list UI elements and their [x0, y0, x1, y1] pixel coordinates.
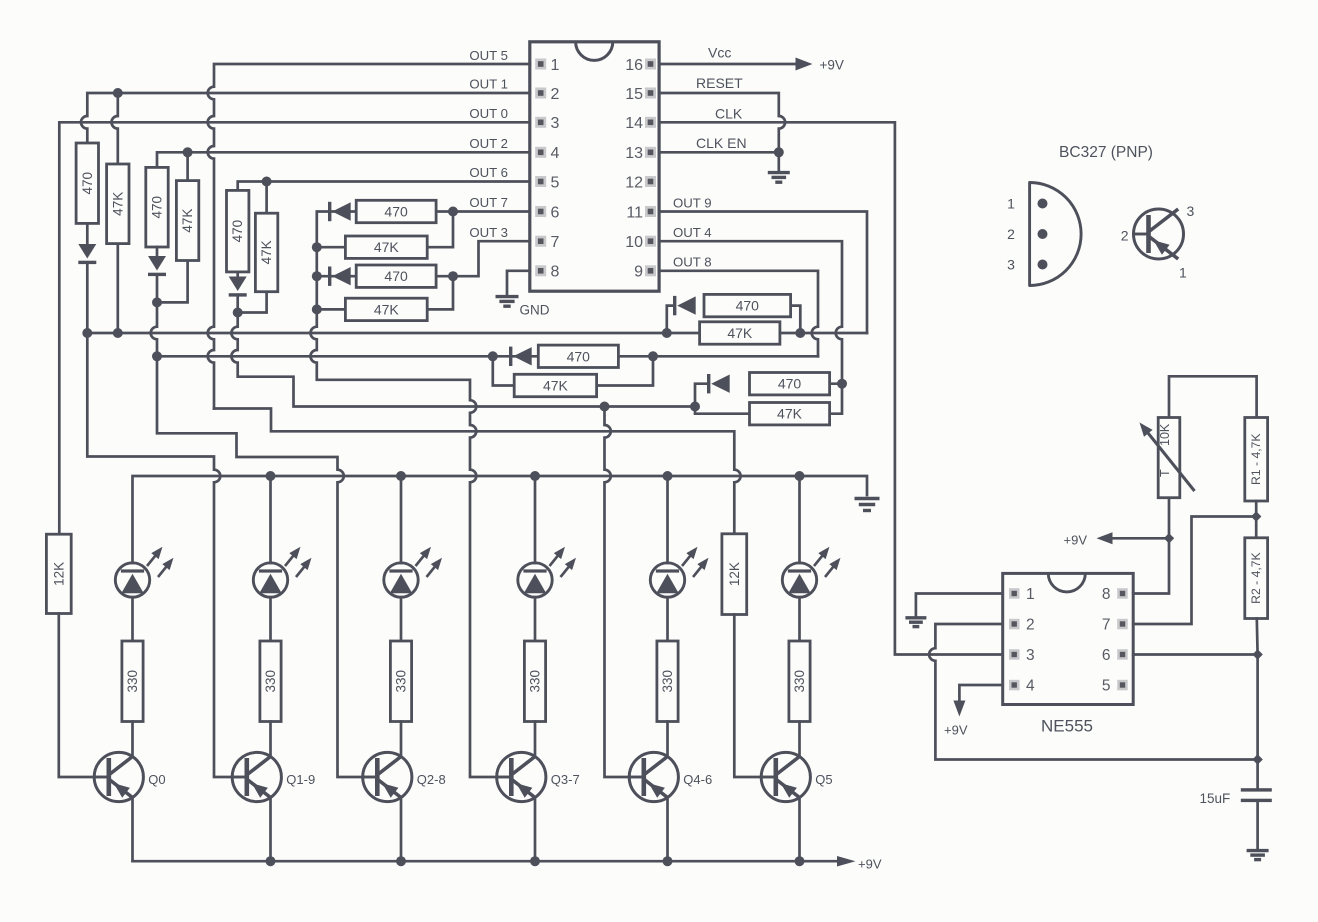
wire Vcc pin16 — [659, 63, 796, 66]
diode OUT2 series — [148, 256, 166, 271]
node P4 right junction — [648, 351, 658, 361]
svg-text:16: 16 — [625, 57, 643, 74]
wire OUT9 pin11 to row1 right end — [659, 212, 867, 334]
svg-text:CLK: CLK — [715, 105, 743, 121]
node rail/LED column 3 — [530, 471, 540, 481]
resistor P4 470 — [538, 345, 618, 367]
diode OUT1 series — [78, 244, 96, 259]
resistor 330 (Q0) — [122, 641, 143, 722]
wire 47K-C bottom jog — [238, 292, 267, 313]
wire group C node staircase to row3 — [231, 296, 695, 407]
svg-text:OUT 3: OUT 3 — [469, 225, 508, 240]
potentiometer T 10K — [1158, 418, 1180, 498]
wire P3 diode branch verticals — [667, 306, 801, 333]
wire OUT3 row pin7 with step to P2 — [317, 241, 530, 276]
node OUT6/47K-C junction — [262, 177, 272, 187]
svg-text:4: 4 — [551, 145, 560, 162]
svg-text:470: 470 — [80, 172, 95, 195]
diode P2 (to OUT3) — [328, 267, 331, 286]
resistor 47K (OUT1 branch) — [107, 164, 129, 244]
svg-text:1: 1 — [1179, 265, 1187, 281]
node bottom rail junction — [663, 856, 673, 866]
wire 47K-A bottom — [116, 244, 119, 333]
transistor Q3-7 (BC327) — [497, 752, 546, 801]
resistor R2 4.7K — [1245, 538, 1268, 619]
svg-text:+9V: +9V — [858, 857, 882, 872]
svg-text:12K: 12K — [727, 562, 742, 586]
ground (LED rail) — [855, 497, 880, 500]
svg-text:47K: 47K — [259, 240, 274, 264]
resistor P2 47K — [345, 298, 427, 320]
wire LED column 3 upper — [534, 476, 537, 563]
svg-text:BC327 (PNP): BC327 (PNP) — [1059, 144, 1153, 161]
wire LED5 to 330 — [798, 597, 801, 641]
wire OUT1 row pin2 to 470 top — [81, 93, 530, 143]
wire junction to ground stub — [777, 152, 780, 171]
resistor R1 4.7K — [1245, 418, 1268, 502]
node 470-A/row1 — [82, 328, 92, 338]
svg-text:470: 470 — [230, 220, 245, 243]
svg-text:1: 1 — [1007, 196, 1015, 212]
wire LED column 5 upper — [798, 476, 801, 563]
wire 47K-B bottom jog — [157, 261, 188, 303]
LED D1 (Q1-9 column) — [253, 563, 287, 597]
svg-text:7: 7 — [1102, 617, 1111, 634]
wire 47K-B top branch — [186, 152, 189, 180]
diode P4 (to OUT8) — [509, 347, 512, 366]
wire CLK EN pin13 — [659, 151, 779, 154]
svg-text:47K: 47K — [777, 406, 803, 422]
svg-text:330: 330 — [263, 670, 278, 693]
svg-text:+9V: +9V — [1064, 532, 1088, 547]
wire LED1 to 330 — [269, 597, 272, 641]
wire emitter rail +9V — [133, 860, 840, 863]
resistor 330 (Q2-8) — [390, 641, 411, 722]
node OUT3/P2 right junction — [448, 271, 458, 281]
BC327 package pin dots — [1038, 199, 1048, 209]
svg-text:10K: 10K — [1158, 423, 1172, 446]
node P3 right junction — [795, 328, 805, 338]
arrow +9V (pin8 branch) — [1097, 532, 1113, 544]
svg-text:330: 330 — [792, 670, 807, 693]
wire LED4 to 330 — [666, 597, 669, 641]
svg-text:47K: 47K — [543, 378, 569, 394]
resistor P5 47K — [750, 403, 830, 425]
svg-text:Q0: Q0 — [148, 772, 165, 787]
wire 330 to Q5 collector — [798, 722, 801, 758]
svg-text:OUT 2: OUT 2 — [469, 136, 508, 151]
svg-text:3: 3 — [1026, 647, 1035, 664]
svg-text:330: 330 — [394, 670, 409, 693]
node OUT7/P1 right junction — [448, 207, 458, 217]
wire 330 to Q3-7 collector — [534, 722, 537, 758]
diode P1 (to OUT7) — [328, 202, 331, 221]
wire LED anode rail to ground — [133, 476, 868, 563]
wire LED2 to 330 — [400, 597, 403, 641]
node row3/Q4-6 base junction — [600, 402, 610, 412]
node OUT2/47K-B junction — [183, 147, 193, 157]
node P5/row3 junction — [690, 402, 700, 412]
wire pin8 to ground — [507, 271, 530, 295]
wire OUT5 net: pin1 left, down, staircase to Q5 column — [208, 64, 530, 409]
wire Q1-9 base staircase — [87, 333, 232, 777]
wire +9V branch — [1112, 537, 1169, 540]
U2 pin pads 1-4 — [1009, 588, 1020, 690]
svg-text:OUT 1: OUT 1 — [469, 77, 508, 92]
svg-text:10: 10 — [625, 234, 643, 251]
node bottom rail junction — [396, 856, 406, 866]
wire LED column 4 upper — [666, 476, 669, 563]
U2 pin pads 8-5 — [1117, 588, 1128, 690]
pot wiper arrow — [1146, 431, 1195, 492]
wire U2 pin1 to ground — [916, 594, 1003, 617]
LED D2 (Q2-8 column) — [384, 563, 418, 597]
wire pot top to R1 top — [1169, 376, 1257, 417]
wire 12K-Q0 to base — [59, 614, 94, 778]
svg-text:6: 6 — [1102, 647, 1111, 664]
svg-text:15: 15 — [625, 86, 643, 103]
svg-text:47K: 47K — [110, 192, 125, 216]
svg-text:3: 3 — [1007, 257, 1015, 273]
resistor 47K (OUT6 branch) — [255, 213, 277, 292]
svg-text:OUT 0: OUT 0 — [469, 106, 508, 121]
wire U2 pin6 to R2 bottom node — [1133, 653, 1257, 656]
resistor P5 470 — [750, 373, 830, 395]
node pin2/cap junction — [1252, 754, 1262, 764]
diode OUT6 series — [229, 277, 247, 292]
arrow +9V (U2 pin4) — [953, 701, 965, 717]
transistor Q0 (BC327) — [94, 752, 143, 801]
resistor 330 (Q1-9) — [260, 641, 281, 722]
U2 pin numbers 8-5 — [1102, 586, 1111, 695]
wire U2 pin4 +9V stub — [959, 685, 1002, 701]
wire U2 pin8 to pot — [1133, 498, 1169, 594]
node R1/R2/pin7 junction — [1251, 511, 1261, 521]
svg-text:47K: 47K — [180, 209, 195, 233]
IC U2 NE555 body — [1003, 573, 1133, 704]
node group-B/row2 — [152, 351, 162, 361]
svg-text:OUT 9: OUT 9 — [673, 195, 712, 210]
svg-text:1: 1 — [1026, 586, 1035, 603]
wire OUT2 row pin4 to 470-B top — [157, 152, 530, 167]
svg-text:Vcc: Vcc — [708, 45, 731, 61]
svg-text:330: 330 — [528, 670, 543, 693]
wire Q3-7 emitter to +9V rail — [534, 798, 537, 861]
svg-text:11: 11 — [626, 204, 643, 221]
svg-text:470: 470 — [384, 268, 408, 284]
node rail/LED column 1 — [266, 471, 276, 481]
resistor P1 470 — [356, 200, 436, 222]
wire 470-C to diode — [236, 272, 239, 277]
wire 470-B to diode — [156, 247, 159, 302]
svg-text:OUT 4: OUT 4 — [673, 225, 712, 240]
wire 47K-A top branch — [111, 93, 117, 164]
wire Q4-6 emitter to +9V rail — [666, 798, 669, 861]
svg-text:14: 14 — [625, 115, 643, 132]
LED D0 (Q0 column) — [115, 563, 149, 597]
wire OUT7 row and P1/P2 left vertical to Q3-7 base — [310, 212, 529, 778]
wire 330 to Q1-9 collector — [269, 722, 272, 758]
node 47K-B/470-B junction — [152, 297, 162, 307]
U1 pin pads 1-8 — [535, 59, 546, 277]
arrow +9V Vcc — [796, 58, 813, 71]
wire Q2-8 emitter to +9V rail — [400, 798, 403, 861]
svg-text:+9V: +9V — [944, 723, 968, 738]
wire CLK pin14 down to NE555 pin3 — [659, 122, 1003, 654]
transistor Q4-6 (BC327) — [629, 752, 678, 801]
svg-text:RESET: RESET — [696, 75, 743, 91]
svg-text:3: 3 — [551, 115, 560, 132]
resistor 330 (Q4-6) — [657, 641, 678, 722]
svg-text:12: 12 — [625, 174, 643, 191]
resistor P3 47K — [700, 322, 780, 344]
ground (RESET / CLK EN) — [768, 171, 790, 174]
wire Q0 emitter to +9V rail — [131, 798, 134, 861]
svg-text:47K: 47K — [374, 301, 400, 317]
wire R1 bottom to R2 top — [1255, 501, 1258, 538]
wire LED column 2 upper — [400, 476, 403, 563]
node bottom rail junction — [530, 856, 540, 866]
svg-text:47K: 47K — [374, 239, 400, 255]
node bottom rail junction — [795, 856, 805, 866]
svg-text:9: 9 — [634, 264, 643, 281]
svg-text:8: 8 — [551, 264, 560, 281]
wire row1 bus (OUT1/OUT9 node) — [87, 332, 867, 335]
wire Q5 emitter to +9V rail — [798, 798, 801, 861]
resistor 470 (OUT2 branch) — [146, 167, 168, 247]
LED D4 (Q4-6 column) — [650, 563, 684, 597]
wire P2 47K branch — [317, 276, 453, 309]
svg-text:2: 2 — [1026, 617, 1035, 634]
node OUT1/47K-A junction — [113, 88, 123, 98]
diode P5 (to OUT4) — [707, 374, 710, 393]
wire U2 pin7 to R1/R2 node — [1133, 517, 1256, 625]
BC327 package outline (TO-92) — [1030, 183, 1082, 286]
node P5/OUT4 junction — [837, 379, 847, 389]
U1 pin numbers 1-8 — [551, 57, 560, 281]
wire 470-A to diode — [86, 223, 89, 333]
node rail/LED column 5 — [795, 471, 805, 481]
svg-text:6: 6 — [551, 204, 560, 221]
LED D3 (Q3-7 column) — [518, 563, 552, 597]
svg-text:Q2-8: Q2-8 — [417, 772, 446, 787]
wire 330 to Q4-6 collector — [666, 722, 669, 758]
wire P5 right vertical — [830, 384, 842, 414]
svg-text:Q3-7: Q3-7 — [551, 772, 580, 787]
transistor Q2-8 (BC327) — [363, 752, 412, 801]
svg-text:47K: 47K — [727, 325, 753, 341]
svg-text:OUT 8: OUT 8 — [673, 255, 712, 270]
svg-text:+9V: +9V — [820, 57, 844, 72]
node +9V branch (pin8) — [1164, 533, 1174, 543]
svg-text:2: 2 — [551, 86, 560, 103]
wire OUT6 row pin5 to 470-C top — [238, 182, 530, 191]
wire R2 bottom to capacitor — [1255, 619, 1258, 789]
svg-text:OUT 6: OUT 6 — [469, 165, 508, 180]
node P2 left (diode) junction — [312, 271, 322, 281]
node 47K-A/row1 — [113, 328, 123, 338]
svg-text:330: 330 — [125, 670, 140, 693]
node rail/LED column 2 — [396, 471, 406, 481]
resistor 12K (Q0 base) — [46, 534, 71, 613]
resistor 12K (Q5 base) — [722, 534, 747, 615]
node RESET/CLK EN junction — [774, 147, 784, 157]
diode P3 (to OUT9) — [673, 296, 676, 315]
capacitor 15uF — [1241, 788, 1272, 791]
wire OUT0 net: pin3 to left edge down to 12K — [59, 122, 530, 534]
transistor Q1-9 (BC327) — [232, 752, 281, 801]
svg-text:7: 7 — [551, 234, 560, 251]
svg-text:CLK EN: CLK EN — [696, 135, 747, 151]
wire P5 left vertical — [695, 384, 750, 414]
svg-text:470: 470 — [150, 196, 165, 219]
svg-text:470: 470 — [778, 376, 802, 392]
svg-text:8: 8 — [1102, 586, 1111, 603]
wire 330 to Q2-8 collector — [400, 722, 403, 758]
svg-text:2: 2 — [1121, 228, 1129, 244]
svg-text:470: 470 — [384, 204, 408, 220]
svg-text:Q4-6: Q4-6 — [683, 772, 712, 787]
wire 47K-C top branch — [265, 182, 268, 214]
wire Q4-6 base vertical — [605, 407, 630, 778]
svg-text:5: 5 — [1102, 678, 1111, 695]
resistor P2 470 — [356, 265, 436, 287]
svg-text:R1 - 4,7K: R1 - 4,7K — [1249, 433, 1263, 484]
U1 pin numbers 16-9 — [625, 57, 643, 281]
wire group B node vertical + Q2-8 staircase — [151, 302, 363, 777]
wire OUT4 pin10 down to P5 right — [659, 241, 842, 384]
resistor P3 470 — [704, 294, 791, 316]
svg-text:15uF: 15uF — [1200, 791, 1231, 806]
node bottom rail junction — [266, 856, 276, 866]
ground GND pin8 — [496, 295, 519, 298]
wire P4 47K branch — [493, 356, 653, 385]
svg-text:2: 2 — [1007, 226, 1015, 242]
wire OUT5 staircase lower run — [214, 409, 741, 534]
wire RESET pin15 — [659, 93, 785, 152]
wire LED column 1 upper — [269, 476, 272, 563]
wire 12K-Q5 to base — [734, 615, 761, 778]
IC U1 CD4017 decade counter body — [530, 42, 659, 291]
svg-text:Q5: Q5 — [815, 772, 832, 787]
wire row2 bus (OUT2/OUT8 node) — [157, 355, 818, 358]
node P2 47K left junction — [312, 304, 322, 314]
resistor 330 (Q3-7) — [524, 641, 545, 722]
svg-text:3: 3 — [1187, 203, 1195, 219]
wire 330 to Q0 collector — [131, 722, 134, 758]
svg-text:GND: GND — [520, 303, 550, 318]
node rail/LED column 4 — [663, 471, 673, 481]
node P1 left (47K) junction — [312, 242, 322, 252]
wire LED3 to 330 — [534, 597, 537, 641]
transistor Q5 (BC327) — [761, 752, 810, 801]
wire P1 47K branch — [317, 212, 453, 248]
LED D5 (Q5 column) — [782, 563, 816, 597]
wire LED0 to 330 — [131, 597, 134, 641]
svg-text:13: 13 — [625, 145, 643, 162]
svg-text:OUT 7: OUT 7 — [469, 195, 508, 210]
resistor 470 (OUT1 branch) — [76, 143, 98, 223]
svg-text:NE555: NE555 — [1041, 717, 1093, 736]
ground (U2 pin1) — [905, 616, 926, 619]
svg-text:R2 - 4,7K: R2 - 4,7K — [1249, 552, 1263, 603]
BC327 symbol (PNP) — [1134, 209, 1184, 259]
resistor 470 (OUT6 branch) — [227, 190, 249, 272]
wire capacitor to ground — [1256, 802, 1259, 849]
svg-text:470: 470 — [736, 298, 760, 314]
resistor P4 47K — [514, 374, 596, 396]
wire OUT8 pin9 down to P4 right — [659, 271, 818, 357]
U1 pin pads 16-9 — [645, 59, 656, 277]
U2 pin numbers 1-4 — [1026, 586, 1035, 695]
node P3 left junction — [662, 328, 672, 338]
resistor 47K (OUT2 branch) — [176, 181, 198, 261]
ground (capacitor) — [1247, 849, 1269, 852]
node P4 left junction — [488, 351, 498, 361]
svg-text:T: T — [1158, 469, 1172, 477]
svg-text:470: 470 — [567, 348, 591, 364]
svg-text:12K: 12K — [51, 562, 66, 586]
resistor 330 (Q5) — [789, 641, 810, 722]
wire U2 pin2 to cap node — [929, 624, 1257, 760]
resistor P1 47K — [345, 236, 427, 258]
svg-text:Q1-9: Q1-9 — [286, 772, 315, 787]
svg-text:5: 5 — [551, 174, 560, 191]
wire Q1-9 emitter to +9V rail — [269, 798, 272, 861]
svg-text:1: 1 — [551, 57, 560, 74]
svg-text:330: 330 — [660, 670, 675, 693]
svg-text:OUT 5: OUT 5 — [469, 48, 508, 63]
node 47K-C/470-C junction — [233, 308, 243, 318]
arrow +9V bottom rail — [837, 856, 856, 867]
node pin6/R2 junction — [1252, 649, 1262, 659]
svg-text:4: 4 — [1026, 678, 1035, 695]
